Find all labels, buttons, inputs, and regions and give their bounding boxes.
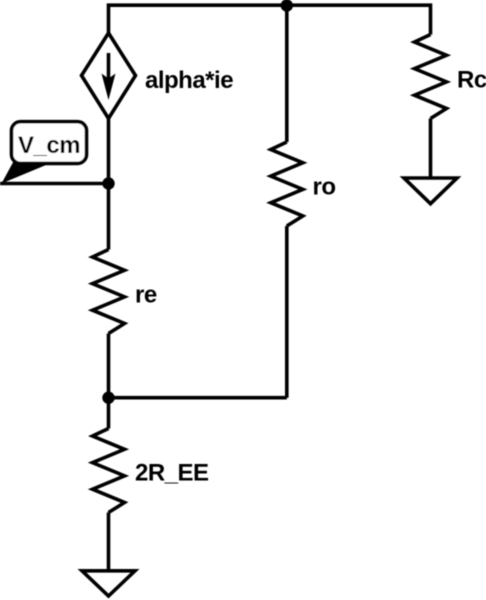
wire: node E to resistor 2R_EE xyxy=(107,398,111,429)
current source arrow xyxy=(102,53,116,100)
svg-text:ro: ro xyxy=(313,174,336,201)
ground (below Rc) xyxy=(404,178,457,204)
wire: node E to ro bottom (horizontal) xyxy=(109,396,287,400)
svg-text:Rc: Rc xyxy=(457,67,486,94)
wire: Rc bottom to ground xyxy=(429,119,433,179)
resistor ro xyxy=(271,142,303,226)
wire: current source bottom to node V_cm xyxy=(107,119,111,184)
flag V_cm callout tail xyxy=(2,162,47,184)
ground (bottom) xyxy=(82,571,135,596)
svg-text:alpha*ie: alpha*ie xyxy=(145,67,233,94)
svg-text:re: re xyxy=(135,282,157,309)
wire: ro top lead from top net xyxy=(285,6,289,143)
svg-text:2R_EE: 2R_EE xyxy=(135,460,209,487)
resistor 2R_EE xyxy=(93,429,125,513)
wire: horizontal stub at node V_cm xyxy=(0,182,109,186)
wire: node V_cm to resistor re xyxy=(107,184,111,250)
junction: node V_cm dot xyxy=(104,179,113,188)
flag V_cm callout box xyxy=(12,122,87,164)
wire: ro bottom lead xyxy=(285,226,289,398)
wire: top net (current source top to Rc top) xyxy=(109,5,431,34)
svg-text:V_cm: V_cm xyxy=(18,132,80,159)
junction: node E dot xyxy=(104,393,113,402)
current source U1 diamond xyxy=(82,33,136,119)
resistor Rc xyxy=(415,35,447,119)
wire: re bottom to node E xyxy=(107,334,111,398)
junction: top node dot xyxy=(282,1,291,10)
wire: 2R_EE bottom to ground xyxy=(107,513,111,571)
resistor re xyxy=(93,250,125,334)
